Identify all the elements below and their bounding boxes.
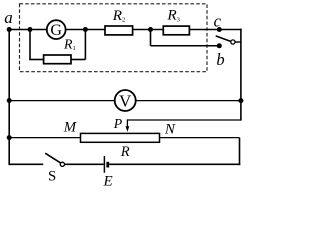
dashed box (galvanometer sub-circuit) — [20, 4, 208, 72]
wiper arrowhead — [126, 126, 130, 132]
wire: wiper arrow shaft — [126, 119, 128, 127]
resistor R3 — [163, 26, 189, 35]
battery E positive plate — [103, 156, 105, 173]
resistor R2 — [105, 26, 133, 35]
wire: voltmeter wire right — [136, 100, 241, 102]
svg-text:N: N — [164, 122, 176, 138]
wire: R2 right to R3 — [133, 29, 164, 31]
svg-text:V: V — [119, 91, 132, 110]
svg-text:P: P — [113, 116, 123, 131]
wire: M wire — [9, 137, 80, 139]
svg-text:R: R — [120, 144, 130, 160]
wire: R1 branch bottom right — [71, 59, 85, 61]
selector switch pivot circle — [231, 40, 235, 44]
selector switch lever — [216, 36, 232, 42]
wire: bottom wire left to switch — [9, 163, 43, 165]
svg-text:E: E — [103, 173, 113, 189]
svg-text:S: S — [48, 168, 56, 184]
wire: battery to right corner — [109, 163, 240, 165]
junction right of G — [83, 27, 88, 32]
wire: R1 branch bottom left — [29, 59, 43, 61]
svg-text:b: b — [216, 50, 224, 69]
switch S lever — [45, 153, 61, 163]
wire: pivot to right rail — [235, 41, 241, 43]
svg-text:a: a — [4, 8, 13, 27]
wire: right rail upper segment — [240, 29, 242, 121]
resistor R1 — [44, 55, 71, 64]
wire: bypass down from junction — [150, 30, 152, 46]
junction voltmeter left — [7, 98, 12, 103]
svg-text:M: M — [63, 120, 77, 136]
junction between R2 and R3 — [148, 27, 153, 32]
node a dot — [7, 27, 12, 32]
switch S pivot circle — [60, 162, 64, 166]
voltmeter V — [115, 90, 136, 111]
wire: right rail lower segment — [239, 138, 241, 166]
wire: N wire — [160, 137, 240, 139]
junction M wire on left rail — [7, 135, 12, 140]
junction left of G — [28, 27, 33, 32]
wire: R1 branch right vertical — [84, 30, 86, 60]
svg-text:c: c — [214, 12, 222, 31]
wire: voltmeter wire left — [9, 100, 114, 102]
wire: left rail — [8, 30, 10, 166]
wire: R3 right to corner c — [189, 29, 241, 31]
galvanometer G — [47, 20, 66, 39]
wire: G right to R2 — [66, 29, 105, 31]
terminal c — [217, 27, 222, 32]
terminal b — [217, 43, 222, 48]
wire: top main wire from a to G — [9, 29, 46, 31]
svg-text:G: G — [50, 22, 62, 39]
junction voltmeter right — [238, 98, 243, 103]
wire: wiper horizontal from right rail — [127, 119, 240, 121]
battery E negative plate — [106, 162, 109, 168]
wire: switch to battery — [65, 163, 104, 165]
rheostat R — [81, 133, 160, 142]
wire: bypass horizontal to b — [151, 45, 220, 47]
wire: R1 branch left vertical — [29, 30, 31, 60]
